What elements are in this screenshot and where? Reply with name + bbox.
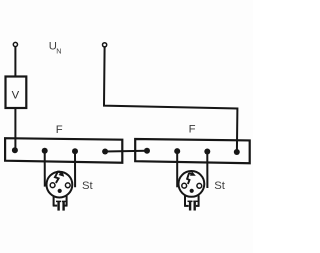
wire F2 to plug St2 left pin	[176, 151, 178, 187]
plug St2 earth contact dot	[190, 189, 194, 193]
junction dot F2 terminal 1	[144, 148, 150, 154]
junction dot F1 terminal 3	[72, 148, 78, 154]
terminal N (right supply terminal)	[103, 43, 107, 47]
junction dot F2 terminal 4	[234, 149, 240, 155]
wire terminal N to fuse box F2	[104, 47, 237, 152]
terminal L (left supply terminal)	[13, 42, 17, 46]
fuse/terminal box F1	[5, 138, 122, 163]
junction dot F2 terminal 3	[204, 149, 210, 155]
plug St2 fault flash arrow	[187, 171, 196, 184]
wire F2 to plug St2 right pin	[206, 152, 208, 189]
svg-text:F: F	[189, 123, 196, 135]
label U_N (supply voltage)	[49, 41, 62, 56]
fuse/terminal box F2	[135, 139, 250, 163]
junction dot F1 terminal 1	[12, 147, 18, 153]
svg-text:N: N	[56, 47, 61, 56]
plug St1 body and pins	[53, 196, 68, 211]
plug St1 (socket face)	[47, 171, 73, 211]
wire F1 to F2	[105, 150, 147, 153]
plug St1 left contact hole	[50, 183, 55, 188]
plug St2 (socket face)	[179, 171, 205, 211]
wire voltmeter to fuse box F1	[14, 108, 16, 151]
wire F1 to plug St1 right pin	[74, 151, 76, 187]
svg-text:V: V	[12, 90, 20, 102]
plug St2 body and pins	[184, 195, 199, 210]
wire terminal L to voltmeter	[14, 47, 16, 77]
svg-text:St: St	[214, 180, 226, 192]
junction dot F1 terminal 2	[42, 148, 48, 154]
plug St1 fault flash arrow	[55, 171, 64, 183]
junction dot F2 terminal 2	[174, 148, 180, 154]
plug St1 right contact hole	[65, 183, 70, 188]
plug St2 left contact hole	[182, 183, 187, 188]
plug St2 right contact hole	[197, 183, 202, 188]
voltmeter V	[6, 77, 27, 109]
svg-text:F: F	[56, 124, 63, 136]
wire F1 to plug St1 left pin	[44, 151, 46, 187]
svg-text:St: St	[82, 180, 94, 192]
plug St1 earth contact dot	[58, 189, 62, 193]
junction dot F1 terminal 4	[102, 149, 108, 155]
